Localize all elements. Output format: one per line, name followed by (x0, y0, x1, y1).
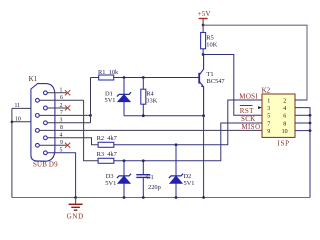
svg-text:7: 7 (267, 121, 270, 127)
zener diode D1 (117, 78, 131, 116)
svg-text:6: 6 (60, 95, 63, 101)
pin 5 wire to ground rail (47, 153, 75, 198)
pin 5 circle (44, 151, 48, 155)
junction D3 top (123, 159, 126, 162)
wire pin7 node up to R1 and down to pin3 (90, 78, 92, 123)
svg-text:11: 11 (15, 103, 21, 109)
pin 2 circle (44, 106, 48, 110)
junction bus pin 10 (309, 129, 312, 132)
junction +5V node (202, 24, 205, 27)
wire R1 left (91, 77, 99, 79)
resistor R4 (141, 78, 146, 116)
pin 8 wire (MISO net to K2 pin 9) (39, 129, 262, 131)
pin 9 wire (39, 144, 66, 146)
svg-text:10K: 10K (206, 42, 217, 49)
ground symbol GND (69, 198, 83, 211)
pin 8 circle (36, 129, 40, 133)
junction rail D2 (175, 196, 178, 199)
K2 pin 3 no-connect stub (258, 106, 262, 109)
svg-text:GND: GND (67, 213, 84, 221)
junction R4 bottom (142, 114, 145, 117)
pin 9 circle (36, 143, 40, 147)
junction D1 top (123, 76, 126, 79)
wire D1/R4 bottoms to T1 emitter (124, 115, 204, 117)
shield wire down to ground rail (11, 108, 13, 197)
pin 7 wire to node at R1 drop (39, 114, 90, 116)
svg-text:10: 10 (282, 129, 288, 135)
pin 4 wire to R2 jog (47, 138, 98, 145)
svg-text:R3 4k7: R3 4k7 (97, 151, 118, 158)
resistor R2 (98, 142, 114, 147)
svg-text:4: 4 (283, 106, 286, 112)
svg-text:ISP: ISP (278, 139, 290, 147)
svg-text:R4: R4 (146, 90, 154, 97)
pin 1 wire (47, 92, 66, 94)
svg-text:RST: RST (240, 107, 254, 115)
svg-text:MOSI: MOSI (239, 93, 258, 101)
resistor R5 (201, 33, 206, 49)
wire R1 to T1 base (114, 77, 200, 79)
pin 2 no-connect X (65, 105, 70, 110)
svg-text:33K: 33K (146, 97, 157, 104)
svg-text:4: 4 (60, 133, 63, 139)
shield pin 10 wire (12, 121, 31, 123)
svg-text:8: 8 (283, 121, 286, 127)
junction bus pin 8 (309, 122, 312, 125)
wire +5V run to K2 right bus (203, 25, 307, 100)
ground rail wire (12, 197, 310, 199)
svg-text:3: 3 (60, 118, 63, 124)
svg-text:K2: K2 (262, 87, 271, 95)
junction rail C1 (142, 196, 145, 199)
svg-text:10: 10 (15, 117, 21, 123)
svg-text:5V1: 5V1 (105, 180, 116, 187)
K2 pin 6 wire (295, 114, 310, 116)
wire R3 to SCK riser (114, 123, 262, 161)
pin 1 no-connect X (65, 90, 70, 95)
K2 pin 8 wire (295, 122, 310, 124)
svg-text:D2: D2 (184, 173, 192, 180)
svg-text:R2 4k7: R2 4k7 (97, 135, 118, 142)
junction emitter node (202, 114, 205, 117)
svg-text:D3: D3 (106, 173, 114, 180)
svg-text:9: 9 (267, 129, 270, 135)
svg-text:6: 6 (283, 114, 286, 120)
junction D2 top (175, 143, 178, 146)
K2 pin 2 wire to +5V bus (295, 99, 307, 101)
svg-text:R5: R5 (206, 35, 213, 42)
junction rail emitter (202, 196, 205, 199)
svg-text:+5V: +5V (198, 10, 211, 18)
pin 3 wire (47, 122, 90, 124)
svg-text:3: 3 (267, 106, 270, 112)
wire R2 to MOSI riser (114, 100, 262, 145)
svg-text:K1: K1 (29, 75, 38, 83)
resistor R1 (99, 75, 114, 80)
svg-text:220p: 220p (148, 184, 161, 191)
connector K1 body (SUB D9) (31, 84, 55, 162)
junction rail pin5 (74, 196, 77, 199)
zener diode D2 (169, 145, 183, 198)
svg-text:7: 7 (60, 110, 63, 116)
pin 3 circle (44, 121, 48, 125)
wire pin6 jog down to R3 input (84, 100, 99, 161)
zener diode D3 (117, 161, 131, 198)
transistor T1 BC547 (199, 55, 204, 116)
pin 1 circle (44, 91, 48, 95)
svg-text:T1: T1 (207, 71, 214, 78)
pin 7 circle (36, 114, 40, 118)
junction shield 10 (11, 121, 14, 124)
connector K2 body (ISP header) (262, 94, 295, 137)
svg-text:8: 8 (60, 125, 63, 131)
svg-text:SUB D9: SUB D9 (33, 161, 58, 168)
junction pin7/R1/pin3 (89, 114, 92, 117)
svg-text:5V1: 5V1 (184, 180, 195, 187)
wire T1 emitter down to ground rail (203, 116, 205, 198)
RST overline (240, 105, 253, 107)
svg-text:1: 1 (60, 88, 63, 94)
svg-text:5: 5 (267, 114, 270, 120)
power +5V symbol (199, 19, 208, 26)
pin 6 wire to R3 jog (39, 99, 83, 101)
svg-text:MISO: MISO (242, 124, 261, 131)
K2 pin 4 wire and ground bus (295, 108, 310, 198)
pin 6 circle (36, 98, 40, 102)
svg-text:C1: C1 (146, 174, 153, 181)
shield pin 11 wire (12, 107, 31, 109)
wire R5 bottom to collector node (202, 49, 204, 55)
junction R4 top (142, 76, 145, 79)
svg-text:SCK: SCK (241, 115, 256, 123)
svg-text:5: 5 (60, 148, 63, 154)
svg-text:2: 2 (60, 103, 63, 109)
svg-text:1: 1 (267, 98, 270, 104)
pin 2 wire (47, 107, 66, 109)
capacitor C1 (136, 161, 150, 198)
junction bus pin 6 (309, 114, 312, 117)
pin 4 circle (44, 136, 48, 140)
K2 pin 10 wire (295, 130, 310, 132)
svg-text:BC547: BC547 (207, 78, 226, 85)
junction collector node (202, 53, 205, 56)
svg-text:R1 10k: R1 10k (98, 69, 119, 76)
junction rail D3 (123, 196, 126, 199)
pin 9 no-connect X (65, 143, 70, 148)
junction C1 top (142, 159, 145, 162)
svg-text:5V1: 5V1 (105, 97, 116, 104)
svg-text:2: 2 (283, 98, 286, 104)
resistor R3 (98, 158, 114, 163)
wire RST takeoff to K2 pin 5 (203, 55, 262, 116)
svg-text:9: 9 (60, 140, 63, 146)
wire +5V to R5 (202, 25, 204, 33)
